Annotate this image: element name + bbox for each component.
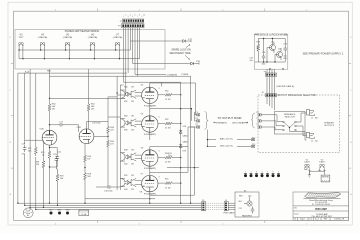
svg-text:R32: R32 (124, 101, 127, 103)
svg-text:R50: R50 (165, 90, 168, 92)
svg-text:SELECTOR: SELECTOR (285, 117, 296, 119)
svg-text:R30: R30 (124, 87, 127, 89)
fan circuit box B1 (228, 190, 259, 217)
tube V2 heater (318, 159, 325, 171)
svg-text:of 1: of 1 (309, 219, 312, 221)
capacitor C24 (168, 153, 173, 157)
svg-text:7027: 7027 (19, 37, 25, 39)
heater bus wire A (19, 41, 130, 50)
wire upper-left rails (18, 69, 127, 209)
diode P17 (181, 39, 192, 43)
svg-text:TO OUTPUT XFMR: TO OUTPUT XFMR (218, 116, 242, 120)
resistor R56 (84, 144, 92, 168)
transistor Q6 (276, 48, 283, 60)
capacitor C29 (283, 44, 288, 61)
capacitor C28 (249, 58, 252, 62)
wire selector to jacks (290, 113, 307, 140)
svg-text:SPEAKER: SPEAKER (324, 122, 334, 125)
svg-text:100n: 100n (261, 64, 265, 66)
svg-text:8: 8 (139, 15, 140, 17)
wire grid bus (50, 97, 125, 99)
svg-text:10n: 10n (168, 155, 171, 157)
svg-text:V1A: V1A (40, 128, 45, 131)
svg-text:3: 3 (44, 143, 45, 145)
resistor R71 (28, 146, 37, 156)
svg-text:3: 3 (159, 176, 160, 178)
resistor R30 R32 pair (120, 87, 141, 103)
svg-text:POWER AMP HEATER WIRING: POWER AMP HEATER WIRING (65, 30, 100, 33)
svg-text:PLATE: PLATE (182, 73, 189, 76)
transformer primary stubs P3 P4 P5 (191, 112, 200, 128)
svg-text:1W: 1W (91, 109, 94, 111)
svg-text:GRD -52V DC: GRD -52V DC (220, 145, 234, 147)
resistor R69 (56, 163, 64, 205)
resistor R52 (158, 119, 181, 130)
connector P6 (202, 200, 206, 211)
resistor R42 R44 pair (120, 175, 141, 191)
jack J2 (307, 132, 319, 142)
svg-text:3: 3 (159, 117, 160, 119)
resistor R68 (35, 140, 45, 207)
svg-text:1W: 1W (131, 149, 134, 151)
svg-text:R38: R38 (124, 149, 127, 151)
tube V1B triode (77, 127, 94, 144)
connector J8 on chassis (262, 92, 277, 110)
connector J7 row 1 (119, 19, 143, 23)
resistor R55 (158, 179, 181, 190)
transformer secondary stubs P0 P1 P2 (257, 112, 275, 128)
power amp heater wiring box (15, 30, 165, 70)
wire heater join (309, 171, 324, 175)
tube V1 heater (304, 159, 310, 171)
svg-text:4: 4 (130, 15, 131, 17)
tube V7 heater (113, 33, 123, 59)
capacitor C17 (49, 121, 79, 132)
ground heater (308, 172, 311, 177)
svg-text:J8: J8 (262, 92, 264, 94)
capacitor C21 (49, 147, 62, 168)
resistor R54 (158, 153, 181, 164)
connector J6 (223, 200, 235, 215)
svg-text:40n: 40n (250, 60, 253, 62)
heater bus wire B (19, 50, 140, 59)
resistor R34 R36 pair (120, 115, 141, 131)
svg-text:6: 6 (81, 132, 82, 134)
wire bias feed 2 (207, 144, 255, 147)
svg-text:1M: 1M (36, 164, 39, 166)
svg-text:(PRIMARY): (PRIMARY) (216, 121, 227, 124)
impedance selector switch SW2 (274, 112, 305, 135)
wire bias feed 1 (207, 130, 255, 147)
presence box bottom exit wires (267, 69, 275, 73)
svg-text:Page 1: Page 1 (300, 219, 305, 221)
svg-text:V1B: V1B (77, 127, 82, 129)
svg-text:R42: R42 (124, 175, 127, 177)
svg-text:WHT: WHT (58, 210, 62, 212)
svg-text:R34: R34 (124, 115, 127, 117)
svg-text:3: 3 (159, 88, 160, 90)
svg-text:(SECONDARY): (SECONDARY) (232, 121, 247, 124)
svg-text:PRESENCE & RESONANCE: PRESENCE & RESONANCE (255, 33, 288, 36)
svg-text:1W: 1W (131, 101, 134, 103)
wire screen rail (117, 76, 126, 190)
indicator DS1 (49, 210, 53, 215)
svg-text:B1: B1 (244, 190, 246, 192)
wire tube plates to xfmr (150, 83, 196, 203)
connector J7 pin labels (123, 15, 145, 18)
svg-text:R55: R55 (165, 179, 168, 181)
company logo (304, 193, 341, 199)
svg-text:5: 5 (132, 16, 133, 18)
tube V6 heater (88, 33, 98, 59)
capacitor C26 (261, 52, 266, 65)
svg-text:15 1W: 15 1W (165, 128, 171, 130)
svg-text:1W: 1W (87, 158, 90, 160)
resistor R64 (107, 97, 118, 135)
cable P6 to J6 (206, 203, 225, 209)
power tube V5 (141, 114, 160, 136)
revision row (298, 218, 331, 221)
wire bundle from P7 (124, 28, 140, 95)
svg-text:1W: 1W (131, 115, 134, 117)
svg-text:(DRIVER CABLE): (DRIVER CABLE) (277, 85, 295, 88)
svg-text:B+A: B+A (25, 71, 30, 74)
wire bottom bus 1 (18, 202, 202, 204)
svg-text:PWR CABLE: PWR CABLE (223, 212, 235, 215)
svg-text:J2: J2 (311, 141, 313, 143)
svg-text:(12AX7A): (12AX7A) (88, 36, 98, 39)
resistor R70 (41, 145, 51, 203)
tube V4 heater (38, 33, 48, 59)
svg-text:OUTPUTS: OUTPUTS (324, 125, 335, 127)
svg-text:1W: 1W (131, 87, 134, 89)
svg-text:12AX7: 12AX7 (304, 161, 310, 164)
resistor R60 (48, 69, 56, 130)
svg-text:FAN/SPKR: FAN/SPKR (242, 214, 252, 217)
wire spare lug P17 (130, 40, 181, 42)
svg-text:BIAS -51V DC: BIAS -51V DC (220, 138, 234, 141)
diode P16 (189, 61, 200, 65)
chassis hatch box (321, 175, 330, 182)
svg-text:COMMON: COMMON (167, 74, 178, 76)
indicator DS2 (58, 210, 62, 215)
diode D18 (179, 126, 189, 137)
svg-text:9: 9 (141, 16, 142, 18)
svg-text:SECONDARY SIDE: SECONDARY SIDE (169, 52, 191, 55)
svg-text:8: 8 (81, 142, 82, 144)
svg-text:(12AX7A): (12AX7A) (38, 36, 48, 39)
brace secondary (251, 113, 255, 128)
driver cable wires (267, 76, 275, 94)
brace primary (205, 112, 209, 130)
junction dots bottom bus (17, 203, 191, 211)
svg-text:1W: 1W (131, 189, 134, 191)
svg-text:15 1W: 15 1W (165, 162, 171, 164)
svg-text:A = 1: A = 1 (315, 218, 319, 221)
wire bottom bus 2 (25, 204, 202, 206)
svg-text:OUTPUT IMPEDANCE SELECTOR: OUTPUT IMPEDANCE SELECTOR (277, 94, 315, 97)
label to output xfmr (214, 116, 249, 124)
capacitor C18 (22, 144, 27, 156)
wire plate feed (50, 76, 191, 203)
svg-text:47n: 47n (22, 154, 25, 156)
power tube V7 (141, 173, 160, 195)
test point row TP1-TP7 (244, 171, 280, 177)
presence box internal wires (255, 39, 285, 63)
svg-text:1W: 1W (131, 175, 134, 177)
svg-text:1W: 1W (131, 130, 134, 132)
svg-text:C16 100n: C16 100n (104, 191, 113, 193)
svg-text:(12AX7A): (12AX7A) (63, 36, 73, 39)
svg-text:1: 1 (44, 133, 45, 135)
svg-text:C19 100n: C19 100n (92, 122, 101, 124)
wire v1 grid (25, 139, 43, 141)
tube V1A triode (40, 128, 57, 146)
svg-text:1: 1 (123, 16, 124, 18)
svg-text:7: 7 (91, 132, 92, 134)
svg-text:Drawn: Drawn (294, 213, 299, 215)
svg-text:1W: 1W (131, 164, 134, 166)
connector P7 row 2 (118, 24, 144, 28)
wire grid feed (124, 82, 162, 86)
resistor R58 (84, 167, 92, 203)
svg-text:12AX7: 12AX7 (319, 161, 325, 164)
power tube V6 (141, 148, 160, 170)
label speaker outputs (324, 122, 335, 128)
wire common (135, 74, 166, 76)
svg-text:6550 AMP: 6550 AMP (315, 208, 327, 211)
tube V5 heater (63, 33, 73, 59)
jack J1 (307, 110, 319, 120)
svg-text:R52: R52 (165, 119, 168, 121)
connector P8 pins (264, 72, 277, 77)
svg-text:R40: R40 (124, 164, 127, 166)
resistor R66 (94, 135, 115, 187)
presence and resonance box (254, 33, 287, 69)
svg-text:7: 7 (137, 16, 138, 18)
svg-text:15 1W: 15 1W (165, 99, 171, 101)
wire anode rail (162, 82, 181, 203)
svg-text:10: 10 (143, 15, 145, 17)
output impedance chassis dashed box (258, 94, 340, 153)
svg-text:C32: C32 (239, 208, 242, 210)
resistor R62 (87, 69, 95, 129)
wire cathode bus (85, 198, 155, 200)
power entry plug J9 (23, 208, 33, 218)
svg-text:R36: R36 (124, 130, 127, 132)
transistor Q5 (269, 42, 276, 54)
svg-text:3: 3 (159, 151, 160, 153)
indicator DS3 (66, 210, 71, 215)
svg-text:6: 6 (135, 15, 136, 17)
svg-text:R44: R44 (124, 189, 127, 191)
svg-text:T-40306-CTH: T-40306-CTH (334, 219, 345, 221)
wire v2 plate top (87, 117, 121, 129)
wire bottom bus 4 (36, 208, 202, 210)
svg-text:3: 3 (128, 16, 129, 18)
wire spare lug P16 (133, 63, 189, 65)
resistor R50 (158, 90, 181, 101)
svg-text:SEE PREAMP, POWER SUPPLY 1: SEE PREAMP, POWER SUPPLY 1 (303, 52, 344, 56)
svg-text:J1: J1 (311, 118, 313, 120)
svg-text:2: 2 (125, 15, 126, 17)
svg-text:1W: 1W (52, 109, 55, 111)
wire bottom bus 3 (30, 206, 202, 208)
potentiometer R90 presence (256, 41, 261, 62)
resistor R38 R40 pair (120, 149, 141, 165)
title block (293, 192, 349, 221)
terminal block TB1 (79, 210, 89, 216)
wire feedback (167, 167, 199, 169)
svg-text:(12AX7A): (12AX7A) (113, 36, 123, 39)
svg-text:15 1W: 15 1W (165, 187, 171, 189)
capacitor C23 (53, 154, 58, 163)
svg-text:2: 2 (54, 133, 55, 135)
diode D19 (179, 140, 189, 152)
wire cathode return (150, 127, 195, 195)
capacitor C16 (96, 185, 120, 192)
tube V3 heater (18, 33, 24, 59)
power tube V4 (141, 85, 160, 108)
svg-text:GRN/YEL: GRN/YEL (322, 177, 329, 179)
note spare lugs (169, 45, 191, 60)
